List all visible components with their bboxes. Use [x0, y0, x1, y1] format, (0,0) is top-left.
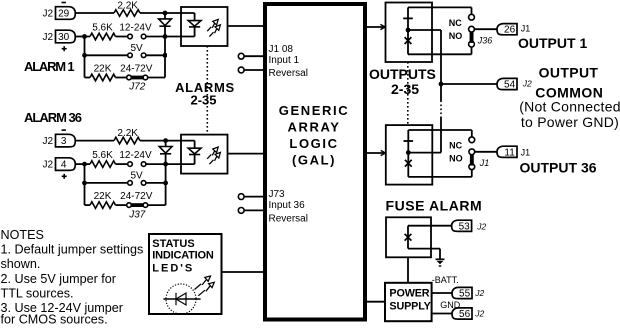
svg-text:2. Use 5V jumper for: 2. Use 5V jumper for	[1, 272, 117, 286]
svg-text:NOTES: NOTES	[1, 228, 44, 242]
svg-text:OUTPUTS: OUTPUTS	[369, 66, 436, 82]
svg-text:GND: GND	[440, 300, 461, 310]
svg-text:J2: J2	[43, 9, 54, 20]
svg-text:to Power GND): to Power GND)	[521, 114, 619, 130]
svg-text:ARRAY: ARRAY	[287, 120, 340, 135]
svg-text:29: 29	[58, 9, 70, 20]
svg-text:54: 54	[504, 80, 516, 91]
svg-text:(Not Connected: (Not Connected	[519, 99, 620, 115]
svg-text:Input 1: Input 1	[269, 55, 300, 66]
svg-text:-BATT.: -BATT.	[432, 275, 459, 285]
svg-text:56: 56	[459, 309, 471, 320]
svg-text:2-35: 2-35	[190, 93, 216, 108]
svg-text:24-72V: 24-72V	[120, 64, 153, 75]
svg-text:11: 11	[504, 147, 515, 158]
svg-text:shown.: shown.	[1, 257, 41, 271]
svg-text:ALARM 1: ALARM 1	[24, 59, 74, 74]
svg-text:4: 4	[61, 160, 67, 171]
svg-text:J1: J1	[521, 23, 531, 33]
svg-text:(GAL): (GAL)	[292, 153, 336, 168]
svg-text:2-35: 2-35	[391, 81, 419, 97]
svg-text:24-72V: 24-72V	[120, 191, 153, 202]
svg-text:J2: J2	[43, 136, 54, 147]
svg-text:5.6K: 5.6K	[92, 23, 113, 34]
svg-text:ALARM 36: ALARM 36	[24, 110, 82, 125]
svg-text:J2: J2	[474, 288, 484, 298]
svg-text:22K: 22K	[94, 64, 112, 75]
svg-text:J2: J2	[43, 32, 54, 43]
svg-text:POWER: POWER	[389, 287, 429, 299]
svg-text:TTL sources.: TTL sources.	[1, 287, 74, 301]
svg-text:J36: J36	[477, 35, 493, 45]
svg-text:5V: 5V	[130, 171, 143, 182]
svg-text:J1 08: J1 08	[269, 44, 294, 55]
svg-text:Reversal: Reversal	[269, 214, 308, 225]
svg-text:OUTPUT 36: OUTPUT 36	[520, 160, 597, 176]
svg-text:STATUS: STATUS	[152, 238, 194, 250]
svg-text:GENERIC: GENERIC	[279, 103, 349, 118]
svg-text:55: 55	[459, 289, 471, 300]
svg-text:J73: J73	[269, 189, 286, 200]
svg-text:J2: J2	[476, 222, 486, 232]
svg-text:NC: NC	[449, 18, 462, 28]
svg-text:INDICATION: INDICATION	[152, 250, 214, 262]
svg-text:J2: J2	[43, 160, 54, 171]
svg-text:J1: J1	[521, 148, 531, 158]
svg-text:NO: NO	[449, 153, 463, 163]
svg-text:12-24V: 12-24V	[119, 150, 152, 161]
svg-text:J2: J2	[474, 308, 484, 318]
svg-text:SUPPLY: SUPPLY	[389, 300, 431, 312]
svg-text:J37: J37	[128, 209, 146, 220]
svg-text:FUSE ALARM: FUSE ALARM	[386, 198, 483, 214]
svg-text:53: 53	[459, 221, 471, 232]
svg-text:5.6K: 5.6K	[92, 150, 113, 161]
svg-text:J1: J1	[479, 158, 490, 168]
svg-text:26: 26	[504, 25, 516, 36]
svg-text:NC: NC	[449, 141, 462, 151]
svg-text:OUTPUT: OUTPUT	[539, 64, 599, 80]
svg-text:J2: J2	[522, 79, 532, 89]
svg-text:LOGIC: LOGIC	[289, 136, 338, 151]
svg-text:OUTPUT 1: OUTPUT 1	[518, 35, 587, 51]
svg-text:3: 3	[61, 136, 67, 147]
svg-text:12-24V: 12-24V	[119, 23, 152, 34]
svg-text:Reversal: Reversal	[269, 68, 308, 79]
svg-text:Input 36: Input 36	[269, 200, 306, 211]
svg-text:LED'S: LED'S	[152, 263, 194, 275]
svg-text:2.2K: 2.2K	[117, 128, 138, 139]
svg-text:22K: 22K	[94, 191, 112, 202]
svg-text:NO: NO	[449, 31, 463, 41]
svg-text:2.2K: 2.2K	[117, 0, 138, 11]
svg-text:30: 30	[58, 32, 70, 43]
svg-text:for CMOS sources.: for CMOS sources.	[1, 313, 108, 326]
svg-text:5V: 5V	[130, 43, 143, 54]
svg-text:J72: J72	[128, 82, 146, 93]
svg-text:1. Default jumper settings: 1. Default jumper settings	[1, 243, 144, 257]
